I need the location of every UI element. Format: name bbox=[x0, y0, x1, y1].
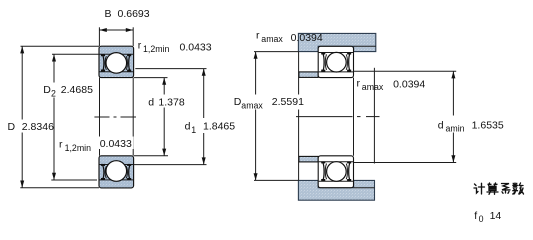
bearing outer section bottom (left view) bbox=[99, 156, 134, 188]
计 bbox=[474, 183, 485, 194]
housing top (with shoulders) bbox=[298, 33, 375, 51]
svg-text:1: 1 bbox=[191, 125, 196, 135]
axis centerline (left view) bbox=[94, 116, 136, 118]
axis centerline (right view) bbox=[296, 116, 380, 118]
svg-text:d: d bbox=[185, 121, 191, 133]
svg-text:14: 14 bbox=[490, 210, 502, 222]
svg-text:r: r bbox=[357, 78, 361, 90]
housing bore line right of bearing (bottom) bbox=[354, 187, 375, 189]
D dimension bbox=[21, 45, 100, 47]
svg-text:2.4685: 2.4685 bbox=[61, 84, 93, 96]
svg-text:amax: amax bbox=[261, 34, 283, 44]
svg-text:B: B bbox=[105, 8, 112, 20]
bearing section bottom (right view, white) bbox=[318, 156, 353, 188]
svg-text:f: f bbox=[474, 210, 477, 222]
svg-text:1.6535: 1.6535 bbox=[472, 119, 504, 131]
seal right (bottom section) bbox=[129, 165, 131, 180]
shaft shoulder bottom bbox=[299, 156, 318, 162]
svg-text:0.0394: 0.0394 bbox=[393, 79, 425, 91]
svg-text:r: r bbox=[256, 30, 260, 42]
svg-text:amax: amax bbox=[241, 100, 263, 110]
svg-text:d: d bbox=[148, 97, 154, 109]
svg-text:D: D bbox=[8, 121, 16, 133]
svg-text:r: r bbox=[59, 139, 63, 151]
计算系数 (drawn as vector strokes) bbox=[474, 183, 524, 194]
Da max dimension bbox=[254, 51, 298, 53]
svg-text:1,2min: 1,2min bbox=[65, 143, 92, 153]
svg-text:1.378: 1.378 bbox=[158, 97, 184, 109]
svg-text:1,2min: 1,2min bbox=[143, 44, 170, 54]
svg-text:0.0433: 0.0433 bbox=[180, 42, 212, 54]
svg-text:0.0433: 0.0433 bbox=[100, 138, 132, 150]
bearing right face line (right view) bbox=[353, 78, 355, 156]
svg-text:amin: amin bbox=[446, 124, 465, 134]
svg-text:0: 0 bbox=[479, 214, 484, 224]
svg-text:2.8346: 2.8346 bbox=[22, 121, 54, 133]
svg-text:2.5591: 2.5591 bbox=[272, 96, 304, 108]
svg-text:r: r bbox=[138, 40, 142, 52]
svg-text:amax: amax bbox=[362, 82, 384, 92]
ball (top section) bbox=[106, 53, 127, 74]
housing bore line right of bearing (top) bbox=[354, 45, 376, 47]
shaft shoulder top bbox=[299, 72, 318, 78]
svg-text:2: 2 bbox=[51, 89, 56, 99]
d1 dimension bbox=[135, 68, 206, 70]
vertical reference line at right shoulder bbox=[373, 68, 375, 164]
D2 dimension bbox=[52, 53, 99, 55]
d dimension bbox=[134, 77, 168, 79]
r 1,2 min bottom label bbox=[97, 137, 134, 150]
bearing outer section top (left view) bbox=[99, 46, 134, 77]
raceway line inner ring bbox=[99, 71, 133, 73]
seal right (top section) bbox=[129, 55, 131, 72]
系 bbox=[502, 184, 511, 194]
d_a min dimension bbox=[354, 70, 456, 72]
bearing side faces (left view) bbox=[99, 78, 101, 156]
数 bbox=[513, 183, 524, 194]
svg-text:d: d bbox=[438, 119, 444, 131]
svg-text:0.0394: 0.0394 bbox=[291, 32, 323, 44]
seal left (bottom section) bbox=[102, 165, 104, 180]
bearing section top (right view, white) bbox=[318, 46, 353, 77]
seal left (top section) bbox=[102, 55, 104, 72]
svg-text:0.6693: 0.6693 bbox=[118, 8, 150, 20]
housing bottom (with shoulders) bbox=[298, 180, 374, 200]
raceway line outer ring bbox=[99, 53, 133, 55]
abutment face line bbox=[298, 52, 300, 181]
svg-text:1.8465: 1.8465 bbox=[203, 121, 235, 133]
ball (bottom section) bbox=[106, 161, 127, 182]
B dimension bbox=[98, 27, 100, 46]
算 bbox=[487, 183, 498, 194]
